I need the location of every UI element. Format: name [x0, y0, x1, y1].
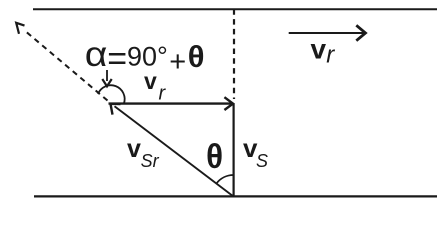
svg-text:=: =	[107, 40, 127, 78]
svg-text:θ: θ	[188, 39, 205, 74]
svg-text:r: r	[159, 82, 167, 104]
svg-text:v: v	[311, 34, 327, 65]
svg-text:r: r	[326, 42, 335, 69]
svg-text:θ: θ	[206, 137, 223, 176]
svg-text:α: α	[85, 34, 108, 74]
svg-text:S: S	[256, 151, 268, 171]
svg-text:v: v	[127, 135, 141, 163]
svg-text:+: +	[169, 46, 186, 78]
svg-text:Sr: Sr	[141, 151, 160, 171]
svg-text:v: v	[144, 68, 157, 94]
